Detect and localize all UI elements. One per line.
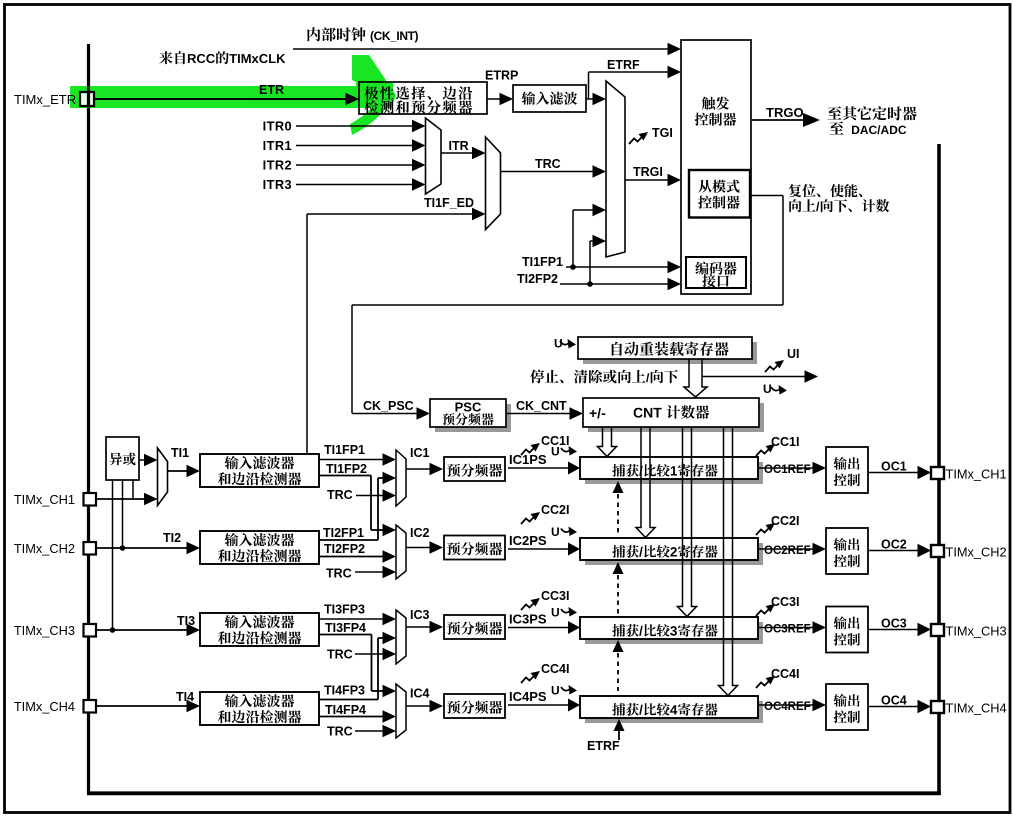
svg-text:IC4PS: IC4PS	[509, 689, 547, 704]
svg-text:U: U	[551, 525, 560, 539]
svg-text:CC3I: CC3I	[771, 595, 799, 609]
svg-text:OC1REF: OC1REF	[764, 464, 811, 476]
svg-text:ETRF: ETRF	[607, 58, 640, 72]
svg-text:TRC: TRC	[327, 488, 353, 502]
svg-text:CC2I: CC2I	[541, 503, 569, 517]
svg-text:ITR2: ITR2	[263, 158, 292, 173]
svg-text:TI1F_ED: TI1F_ED	[424, 196, 474, 210]
svg-text:CK_PSC: CK_PSC	[363, 399, 414, 413]
svg-text:TI1FP2: TI1FP2	[326, 462, 367, 476]
svg-text:TRC: TRC	[327, 725, 353, 739]
svg-text:IC1: IC1	[410, 446, 430, 460]
svg-text:TGI: TGI	[652, 126, 673, 140]
svg-text:ITR3: ITR3	[263, 177, 292, 192]
svg-text:CC1I: CC1I	[771, 435, 799, 449]
svg-text:OC4REF: OC4REF	[764, 701, 811, 713]
svg-text:OC3: OC3	[881, 617, 907, 631]
svg-text:OC1: OC1	[881, 460, 907, 474]
svg-text:TI3: TI3	[177, 614, 195, 628]
svg-text:CC4I: CC4I	[541, 662, 569, 676]
svg-text:+/-: +/-	[589, 405, 606, 421]
svg-text:TIMx_CH3: TIMx_CH3	[946, 624, 1007, 639]
svg-text:TRC: TRC	[326, 567, 352, 581]
svg-text:IC2: IC2	[410, 526, 430, 540]
svg-text:IC1PS: IC1PS	[509, 452, 547, 467]
svg-text:CC2I: CC2I	[771, 514, 799, 528]
svg-text:TIMx_CH4: TIMx_CH4	[14, 699, 75, 714]
svg-text:CK_CNT: CK_CNT	[516, 399, 567, 413]
svg-text:TIMx_CH1: TIMx_CH1	[946, 467, 1007, 482]
svg-text:TRGI: TRGI	[633, 165, 663, 179]
svg-text:ETRP: ETRP	[485, 69, 518, 83]
svg-text:TI1: TI1	[171, 446, 189, 460]
svg-text:TI2FP2: TI2FP2	[517, 272, 558, 286]
svg-text:TIMx_CH3: TIMx_CH3	[14, 623, 75, 638]
svg-text:ITR: ITR	[449, 139, 469, 153]
svg-text:TI2FP2: TI2FP2	[324, 542, 365, 556]
svg-text:TI2FP1: TI2FP1	[323, 526, 364, 540]
svg-text:U: U	[763, 382, 772, 396]
svg-text:OC3REF: OC3REF	[764, 624, 811, 636]
svg-text:IC3PS: IC3PS	[509, 612, 547, 627]
svg-text:ITR1: ITR1	[263, 138, 292, 153]
svg-text:TI4FP3: TI4FP3	[324, 684, 365, 698]
svg-text:ITR0: ITR0	[263, 119, 292, 134]
svg-text:OC4: OC4	[881, 694, 907, 708]
svg-text:U: U	[551, 606, 560, 620]
svg-text:OC2REF: OC2REF	[764, 545, 811, 557]
svg-text:IC3: IC3	[410, 608, 430, 622]
svg-text:TRGO: TRGO	[766, 105, 804, 120]
svg-text:TRC: TRC	[327, 648, 353, 662]
svg-text:TIMx_CH1: TIMx_CH1	[14, 492, 75, 507]
svg-text:TI1FP1: TI1FP1	[522, 255, 563, 269]
svg-text:ETRF: ETRF	[587, 739, 620, 753]
svg-text:TRC: TRC	[535, 157, 561, 171]
svg-text:TIMx_CH2: TIMx_CH2	[946, 545, 1007, 560]
svg-text:CC4I: CC4I	[771, 667, 799, 681]
svg-text:TI3FP4: TI3FP4	[325, 621, 366, 635]
svg-text:TI4FP4: TI4FP4	[325, 703, 366, 717]
svg-text:CC3I: CC3I	[541, 589, 569, 603]
svg-text:UI: UI	[787, 347, 800, 361]
svg-text:U: U	[551, 445, 560, 459]
svg-text:IC4: IC4	[410, 687, 430, 701]
svg-text:TIMx_ETR: TIMx_ETR	[14, 92, 76, 107]
svg-text:IC2PS: IC2PS	[509, 533, 547, 548]
svg-text:ETR: ETR	[259, 83, 284, 97]
svg-text:TI1FP1: TI1FP1	[324, 443, 365, 457]
svg-text:PSC: PSC	[455, 400, 482, 415]
svg-text:TI4: TI4	[176, 690, 194, 704]
svg-text:TI2: TI2	[163, 531, 181, 545]
svg-text:TIMx_CH2: TIMx_CH2	[14, 541, 75, 556]
svg-text:U: U	[551, 684, 560, 698]
svg-text:TIMx_CH4: TIMx_CH4	[946, 701, 1007, 716]
svg-text:TI3FP3: TI3FP3	[324, 603, 365, 617]
svg-text:OC2: OC2	[881, 538, 907, 552]
svg-text:(CK_INT): (CK_INT)	[370, 29, 419, 43]
